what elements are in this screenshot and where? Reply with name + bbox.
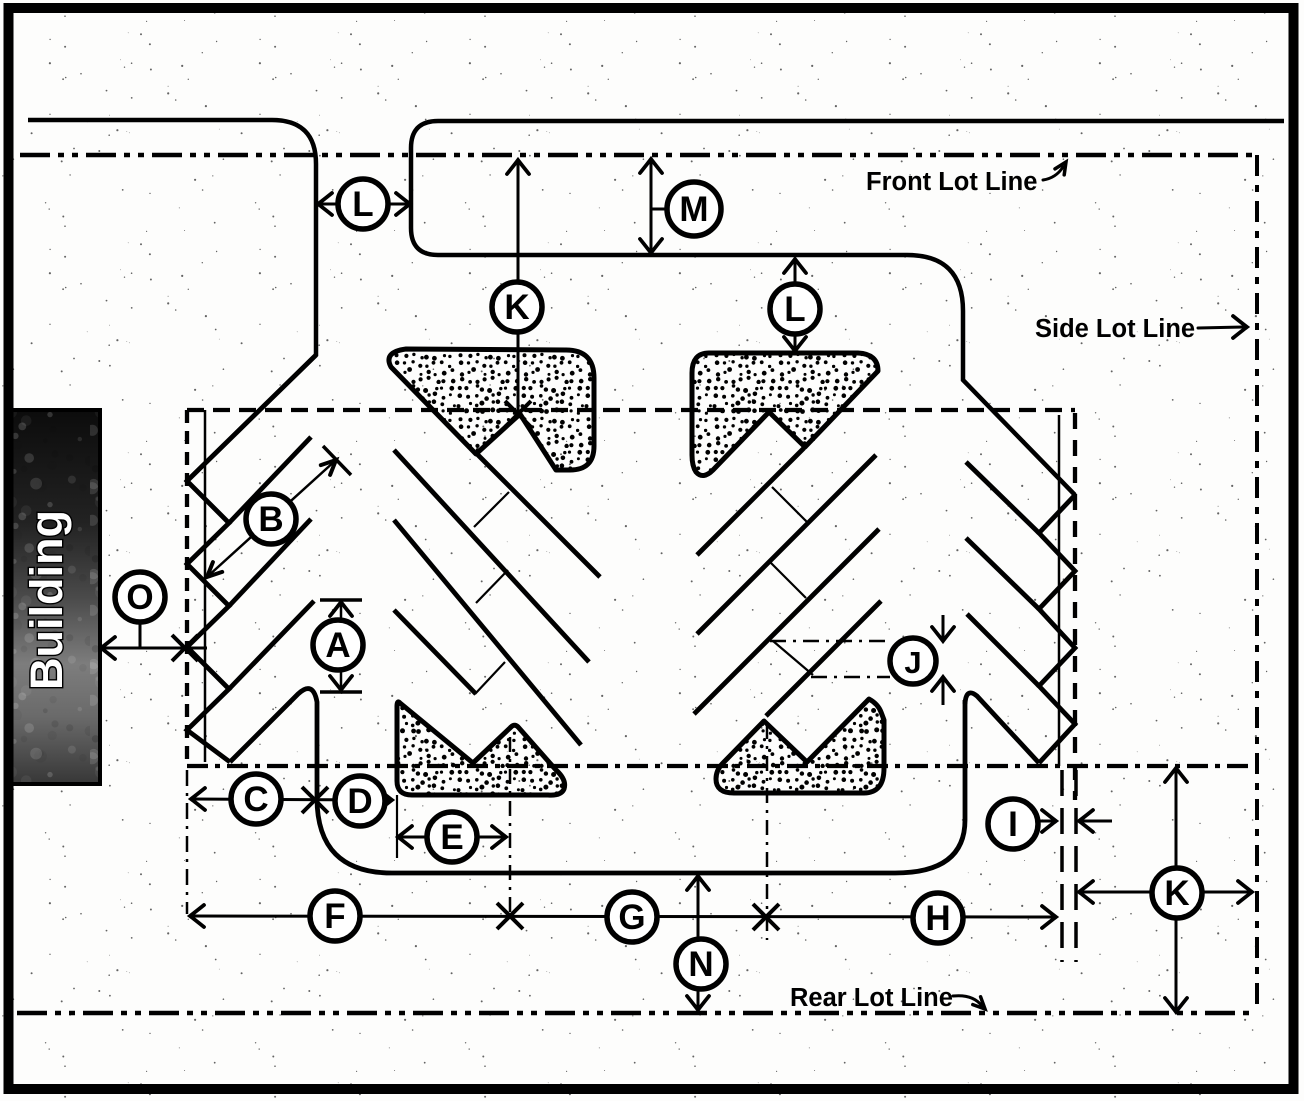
dimension G [607, 892, 657, 942]
svg-text:J: J [904, 645, 921, 680]
bottom drive aisle curb [392, 700, 965, 873]
svg-text:O: O [126, 578, 153, 617]
left bank stall line 3 [229, 519, 311, 606]
building footprint [10, 410, 100, 784]
front lot line [20, 153, 1257, 158]
svg-text:G: G [618, 898, 645, 937]
landscaped island bottom-left [397, 702, 565, 795]
center-left bank stall line 3 [394, 520, 581, 745]
parking area boundary top dashed [187, 408, 1075, 412]
svg-text:C: C [243, 780, 268, 819]
dimension K top: front lot line to parking area [517, 161, 520, 414]
extension line G/H [766, 724, 769, 940]
landscaped island top-left [389, 349, 594, 470]
dimension A: stall width [340, 601, 343, 691]
right bank hairpin hook [965, 693, 1039, 763]
svg-text:E: E [440, 818, 463, 857]
dimension M: front lot line to driveway edge [650, 160, 653, 252]
center-right bank tie 1 [772, 487, 808, 523]
svg-text:F: F [324, 897, 345, 936]
center-right bank tie 2 [771, 563, 806, 598]
center-left bank stall line 1 [476, 453, 600, 577]
svg-text:L: L [784, 290, 805, 329]
parking area boundary left dashed [185, 410, 189, 766]
dimension F [191, 916, 1054, 917]
svg-text:A: A [325, 626, 350, 665]
dimension L mid: driveway edge to island [794, 260, 797, 284]
svg-text:D: D [347, 782, 372, 821]
landscaped island bottom-right [716, 699, 884, 793]
street curb left / entry drive left edge [28, 120, 316, 481]
dimension C [191, 799, 392, 800]
left bank stall stripe zigzag [187, 355, 316, 762]
svg-text:N: N [688, 945, 713, 984]
svg-text:M: M [679, 190, 708, 229]
left bank stall line 2 [229, 437, 311, 523]
right bank stall line 4 [967, 614, 1039, 686]
dimension H [913, 893, 963, 943]
right bank stall edge line [1058, 415, 1061, 766]
parking area boundary right dashed [1073, 413, 1077, 800]
center-left bank tie 2 [476, 570, 508, 603]
svg-text:K: K [1164, 874, 1189, 913]
dimension D [335, 776, 385, 826]
dimension I: stripe gap [1040, 820, 1053, 823]
left bank hook into drive aisle curb [230, 689, 392, 873]
extension line island bottom-left edge [396, 795, 398, 858]
dimension K bottom: setbacks to lot lines [1175, 769, 1178, 1011]
svg-text:L: L [352, 185, 373, 224]
right bank stall stripe zigzag [1039, 495, 1075, 763]
dimension J: stall line spacing [770, 640, 890, 643]
svg-text:K: K [504, 288, 529, 327]
rear lot line [17, 1011, 1257, 1016]
extension line E/F-G [509, 737, 512, 914]
parking area boundary bottom dashed [187, 764, 1254, 768]
svg-text:Front Lot Line: Front Lot Line [866, 168, 1037, 196]
right bank stall line 3 [966, 538, 1039, 609]
right bank stall line 2 [966, 462, 1039, 533]
svg-text:I: I [1008, 805, 1018, 844]
svg-text:Rear Lot Line: Rear Lot Line [790, 984, 953, 1012]
center-right bank stall line 1 [697, 448, 804, 555]
center-left bank stall line 2 [394, 450, 589, 662]
center-left bank tie 1 [474, 492, 509, 527]
svg-text:B: B [258, 500, 283, 539]
stall edge extension line below lot [1060, 770, 1064, 962]
svg-text:Building: Building [21, 510, 72, 690]
center-left bank tie 3 [475, 662, 505, 694]
svg-text:H: H [925, 899, 950, 938]
side lot line [1255, 155, 1259, 1013]
dimension N: aisle to rear lot line [697, 877, 700, 1009]
center-left bank stall line 4 [394, 610, 476, 694]
left bank stall edge line [204, 410, 207, 762]
extension line below left boundary [186, 770, 189, 914]
dimension O: building to parking area [101, 647, 207, 650]
dimension B: stall length [207, 460, 336, 577]
left bank stall line 4 [229, 601, 314, 689]
center-right bank stall line 2 [697, 455, 876, 634]
side boundary extension line below lot [1074, 770, 1078, 962]
center-right bank stall line 3 [694, 529, 879, 714]
landscaped island top-right [692, 353, 878, 476]
street curb right / driveway median island / entry drive right edge [411, 121, 1284, 495]
center-right bank stall line 4 [766, 601, 881, 716]
center-right bank tie 3 [773, 641, 813, 675]
svg-text:Side Lot Line: Side Lot Line [1035, 315, 1195, 343]
dimension L top: entry drive width [318, 203, 339, 206]
dimension E [398, 836, 506, 839]
